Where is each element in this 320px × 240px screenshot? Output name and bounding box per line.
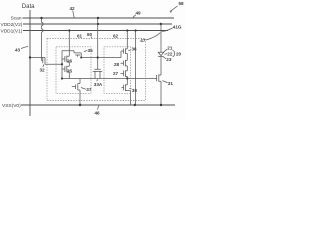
svg-text:26: 26 — [67, 58, 73, 63]
svg-text:47: 47 — [140, 38, 146, 43]
svg-text:42: 42 — [70, 6, 76, 11]
svg-text:62: 62 — [113, 34, 119, 39]
svg-text:31: 31 — [168, 81, 174, 86]
svg-text:33A: 33A — [94, 82, 103, 87]
svg-text:49: 49 — [136, 10, 142, 15]
svg-text:21: 21 — [167, 46, 173, 51]
svg-text:60: 60 — [87, 32, 93, 37]
svg-text:VSS(V0): VSS(V0) — [2, 103, 21, 109]
svg-text:VDD1(V1): VDD1(V1) — [1, 28, 23, 34]
svg-text:25: 25 — [67, 68, 73, 73]
svg-text:27: 27 — [113, 71, 119, 76]
svg-text:VDD2(V2): VDD2(V2) — [1, 22, 23, 28]
svg-text:Data: Data — [22, 4, 35, 10]
svg-text:61: 61 — [77, 34, 83, 39]
svg-text:58: 58 — [179, 1, 185, 6]
svg-text:38: 38 — [132, 88, 138, 93]
svg-text:46: 46 — [95, 110, 101, 115]
svg-text:Scan: Scan — [11, 16, 22, 22]
svg-text:22: 22 — [167, 52, 173, 57]
svg-text:23: 23 — [166, 57, 172, 62]
svg-text:43: 43 — [15, 48, 21, 53]
svg-text:37: 37 — [86, 87, 92, 92]
svg-text:36: 36 — [132, 47, 138, 52]
svg-text:20: 20 — [176, 52, 182, 57]
svg-text:35: 35 — [88, 48, 94, 53]
svg-text:28: 28 — [114, 62, 120, 67]
svg-text:41G: 41G — [173, 24, 182, 29]
svg-text:32: 32 — [40, 68, 46, 73]
